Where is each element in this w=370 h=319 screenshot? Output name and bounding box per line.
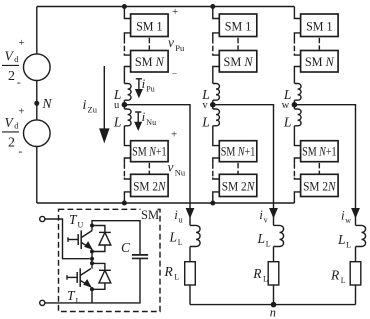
submodule SM 1 (phase w) xyxy=(301,14,339,37)
svg-text:L: L xyxy=(346,241,351,250)
wire dashed series continuation left lower (phase v) xyxy=(212,163,214,177)
wire into SM 2N upper terminal (phase w) xyxy=(294,178,300,180)
inductor L lower arm (phase w) xyxy=(294,109,301,126)
svg-text:L: L xyxy=(263,275,268,284)
submodule SM N (phase w) xyxy=(301,51,339,73)
svg-text:L: L xyxy=(178,238,183,247)
wire dashed series continuation left lower (phase u) xyxy=(123,163,125,177)
wire SM N+1 lower terminal (phase w) xyxy=(294,158,300,163)
arrow iNu lower arm current xyxy=(135,111,141,113)
arrow iv load current xyxy=(269,208,278,219)
submodule SM 2N (phase v) xyxy=(219,174,256,196)
voltage source Vd/2 (upper) xyxy=(24,54,51,81)
svg-text:L: L xyxy=(174,273,179,282)
wire node w to lower arm inductor xyxy=(293,105,295,109)
svg-text:L: L xyxy=(341,276,346,285)
wire inductor to node u xyxy=(123,100,125,105)
submodule SM N+1 (phase w) xyxy=(301,141,339,162)
diode DU (antiparallel of TU) xyxy=(92,226,105,233)
inductor LL load (phase u) xyxy=(190,225,200,246)
svg-text:Zu: Zu xyxy=(88,105,98,115)
svg-text:u: u xyxy=(114,100,120,111)
svg-text:Pu: Pu xyxy=(146,85,154,94)
wire left DC vertical (lower source to bottom bus) xyxy=(36,147,38,204)
node TU emitter junction xyxy=(90,250,94,254)
wire dashed series continuation left lower (phase w) xyxy=(293,163,295,177)
svg-text:N: N xyxy=(42,96,53,111)
wire top rail (collector to capacitor) xyxy=(92,221,140,255)
svg-text:−: − xyxy=(172,70,177,80)
wire top DC bus xyxy=(37,6,295,8)
resistor RL load (phase u) xyxy=(185,262,196,285)
svg-text:n: n xyxy=(270,305,276,319)
wire load inductor to resistor (phase v) xyxy=(273,247,275,262)
svg-text:Pu: Pu xyxy=(175,43,185,53)
node v junction xyxy=(210,102,216,108)
node w junction xyxy=(292,102,298,108)
inductor LL load (phase w) xyxy=(356,225,366,246)
svg-text:SM 1: SM 1 xyxy=(136,19,163,33)
submodule SM 1 (phase v) xyxy=(219,14,256,37)
wire dashed series continuation left (phase v) xyxy=(212,38,214,54)
wire dashed series continuation centre lower (phase u) xyxy=(148,163,150,174)
svg-text:L: L xyxy=(169,230,178,245)
wire SM N lower terminal to arm inductor (phase w) xyxy=(294,67,300,84)
wire SM N+1 lower terminal (phase v) xyxy=(213,158,220,163)
terminal upper (SM detail) xyxy=(40,216,45,221)
svg-text:w: w xyxy=(282,100,290,111)
capacitor C xyxy=(132,254,148,256)
wire SM N lower terminal to arm inductor (phase u) xyxy=(124,67,130,84)
wire into SM N upper terminal (phase w) xyxy=(294,54,300,56)
svg-text:u: u xyxy=(179,216,183,225)
wire lower inductor to SM N+1 (phase v) xyxy=(213,126,220,146)
arrow iZu circulating current xyxy=(103,66,105,130)
svg-text:v: v xyxy=(202,100,208,111)
inductor L lower arm (phase u) xyxy=(124,109,131,126)
svg-text:w: w xyxy=(345,216,351,225)
svg-text:Nu: Nu xyxy=(146,118,156,127)
node n junction xyxy=(271,302,277,308)
svg-text:i: i xyxy=(83,98,87,113)
svg-text:i: i xyxy=(142,109,146,124)
node bottom bus / phase v junction xyxy=(210,201,215,206)
svg-text:R: R xyxy=(164,264,174,279)
svg-text:Nu: Nu xyxy=(175,167,186,177)
node TU collector / diode junction xyxy=(90,224,94,228)
svg-text:+: + xyxy=(19,37,25,49)
wire SM N+1 lower terminal (phase u) xyxy=(124,158,130,163)
svg-text:V: V xyxy=(5,49,15,64)
inductor L upper arm (phase u) xyxy=(124,84,131,101)
wire SM 1 lower terminal (phase w) xyxy=(294,33,300,38)
wire top bus to SM 1 (phase u) xyxy=(124,7,130,19)
wire between sources xyxy=(36,81,38,120)
svg-text:V: V xyxy=(5,115,15,130)
wire resistor to neutral bus (phase v) xyxy=(273,285,275,305)
wire load inductor to resistor (phase w) xyxy=(355,247,357,262)
node TL emitter / diode junction xyxy=(90,287,94,291)
wire resistor to neutral bus (phase w) xyxy=(355,285,357,305)
wire top bus to SM 1 (phase w) xyxy=(294,7,300,19)
svg-text:+: + xyxy=(18,106,24,118)
svg-text:d: d xyxy=(14,54,19,64)
wire node v to lower arm inductor xyxy=(212,105,214,109)
svg-text:L: L xyxy=(266,240,271,249)
wire SM 1 lower terminal (phase v) xyxy=(213,33,220,38)
svg-text:SM N: SM N xyxy=(135,55,165,69)
wire into SM N upper terminal (phase u) xyxy=(124,54,130,56)
wire phase u output to load xyxy=(124,105,190,226)
wire dashed series continuation left (phase u) xyxy=(123,38,125,54)
wire load inductor to resistor (phase u) xyxy=(189,247,191,262)
wire lower inductor to SM N+1 (phase w) xyxy=(294,126,300,146)
resistor RL load (phase v) xyxy=(268,262,279,285)
svg-text:SM 2N: SM 2N xyxy=(222,179,255,193)
wire dashed series continuation left (phase w) xyxy=(293,38,295,54)
wire lower inductor to SM N+1 (phase u) xyxy=(124,126,130,146)
wire phase v output to load xyxy=(213,105,274,226)
svg-text:+: + xyxy=(172,6,178,18)
arrow iu load current xyxy=(186,208,195,219)
svg-text:SM N+1: SM N+1 xyxy=(302,145,337,159)
voltage source Vd/2 (lower) xyxy=(24,120,51,147)
wire top bus to SM 1 (phase v) xyxy=(213,7,220,19)
svg-text:SM N: SM N xyxy=(224,55,254,69)
wire resistor to neutral bus (phase u) xyxy=(189,285,191,305)
wire upper terminal to midpoint xyxy=(45,219,90,259)
terminal lower (SM detail) xyxy=(40,300,45,305)
node bottom bus / phase u junction xyxy=(122,201,127,206)
submodule SM 2N (phase w) xyxy=(301,174,339,196)
svg-text:SM 1: SM 1 xyxy=(306,19,333,33)
arrow iPu upper arm current xyxy=(136,78,142,80)
resistor RL load (phase w) xyxy=(350,262,361,285)
svg-text:v: v xyxy=(168,35,174,50)
svg-text:i: i xyxy=(142,76,146,91)
wire TL collector to midpoint xyxy=(91,263,93,268)
svg-text:d: d xyxy=(14,121,19,131)
node top bus / phase v junction xyxy=(210,4,215,9)
wire into SM N upper terminal (phase v) xyxy=(213,54,220,56)
svg-text:SM N+1: SM N+1 xyxy=(132,145,167,159)
node SM midpoint junction xyxy=(90,257,94,261)
node top bus / phase u junction xyxy=(122,4,127,9)
submodule SM N (phase u) xyxy=(131,51,169,73)
svg-text:L: L xyxy=(201,115,210,130)
svg-text:2: 2 xyxy=(8,69,15,84)
wire dashed series continuation centre lower (phase v) xyxy=(237,163,239,174)
submodule SM N+1 (phase v) xyxy=(219,141,256,162)
wire TL emitter to lower rail xyxy=(91,287,93,303)
wire load neutral bus xyxy=(190,304,356,306)
wire dashed series continuation centre (phase u) xyxy=(148,38,150,50)
wire inductor to node v xyxy=(212,100,214,105)
wire dashed series continuation centre (phase v) xyxy=(237,38,239,50)
submodule SM N+1 (phase u) xyxy=(131,141,169,162)
wire SM 2N lower terminal to bottom bus (phase v) xyxy=(213,192,220,203)
wire SM 2N lower terminal to bottom bus (phase u) xyxy=(124,192,130,203)
wire left DC vertical (top source to top bus) xyxy=(36,7,38,55)
svg-text:SM 2N: SM 2N xyxy=(133,179,166,193)
wire into SM 2N upper terminal (phase u) xyxy=(124,178,130,180)
svg-text:C: C xyxy=(121,240,131,255)
svg-text:L: L xyxy=(337,232,346,247)
svg-text:+: + xyxy=(171,128,177,140)
wire TU emitter to midpoint xyxy=(91,249,93,263)
wire dashed series continuation centre lower (phase w) xyxy=(318,163,320,174)
svg-text:SM 1: SM 1 xyxy=(225,19,252,33)
transistor TL IGBT xyxy=(66,275,68,280)
submodule detail dashed box SM xyxy=(59,209,161,311)
node N junction xyxy=(34,101,39,106)
transistor TU IGBT xyxy=(67,237,69,242)
svg-text:SM: SM xyxy=(141,208,159,222)
wire inductor to node w xyxy=(293,100,295,105)
wire dashed series continuation centre (phase w) xyxy=(318,38,320,50)
inductor L lower arm (phase v) xyxy=(213,109,220,126)
arrow iw load current xyxy=(351,208,360,219)
wire bottom DC bus xyxy=(37,202,295,204)
svg-text:R: R xyxy=(330,268,340,283)
submodule SM 2N (phase u) xyxy=(131,174,169,196)
svg-text:v: v xyxy=(168,160,174,175)
node u junction xyxy=(122,102,128,108)
svg-text:L: L xyxy=(76,297,81,306)
svg-text:U: U xyxy=(78,221,84,230)
svg-text:L: L xyxy=(283,115,292,130)
submodule SM 1 (phase u) xyxy=(131,14,169,37)
svg-text:SM N+1: SM N+1 xyxy=(221,145,255,159)
svg-text:2: 2 xyxy=(8,136,15,151)
submodule SM N (phase v) xyxy=(219,51,256,73)
svg-text:R: R xyxy=(252,266,262,281)
wire node u to lower arm inductor xyxy=(123,105,125,109)
svg-text:v: v xyxy=(264,216,268,225)
inductor L upper arm (phase v) xyxy=(213,84,220,101)
svg-text:-: - xyxy=(17,75,21,89)
inductor L upper arm (phase w) xyxy=(294,84,301,101)
svg-text:SM N: SM N xyxy=(305,55,335,69)
wire SM 2N lower terminal to bottom bus (phase w) xyxy=(294,192,300,203)
svg-text:L: L xyxy=(113,115,122,130)
wire SM N lower terminal to arm inductor (phase v) xyxy=(213,67,220,84)
svg-text:L: L xyxy=(257,231,266,246)
svg-text:SM 2N: SM 2N xyxy=(303,179,336,193)
wire SM 1 lower terminal (phase u) xyxy=(124,33,130,38)
diode DL (antiparallel of TL) xyxy=(92,263,105,270)
wire into SM 2N upper terminal (phase v) xyxy=(213,178,220,180)
wire phase w output to load xyxy=(294,105,355,226)
node TL collector / diode junction xyxy=(90,261,94,265)
svg-text:-: - xyxy=(18,144,22,158)
wire lower rail (terminal to capacitor) xyxy=(45,258,140,303)
inductor LL load (phase v) xyxy=(274,225,284,246)
